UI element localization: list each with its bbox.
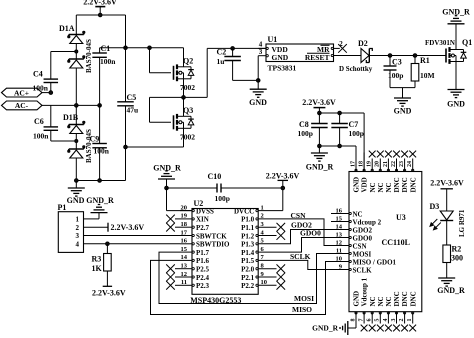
svg-text:DNC: DNC [393,291,401,306]
svg-text:C5: C5 [127,93,137,102]
node D1B midpoint [75,140,78,143]
ground GND input [67,181,85,206]
svg-text:18: 18 [181,221,188,228]
svg-text:2.2V-3.6V: 2.2V-3.6V [266,172,300,181]
svg-text:11: 11 [181,279,187,286]
svg-text:D1A: D1A [59,24,75,33]
capacitor C3 [384,56,404,88]
node DVCC/C10 [281,186,285,190]
U2 pin11 P2.3 nc [166,281,180,290]
power +2.2V-3.6V R3 [92,286,126,297]
capacitor C7 [331,113,364,146]
svg-text:P2.7: P2.7 [196,224,210,232]
node +V rail/47u top [124,46,128,50]
svg-text:47u: 47u [127,106,139,115]
svg-text:RESET: RESET [305,53,330,62]
svg-text:AC+: AC+ [14,88,29,97]
svg-text:GND: GND [447,100,465,109]
U2 left pin stubs [180,204,192,286]
svg-text:P1.4: P1.4 [241,249,255,257]
svg-text:NC: NC [377,182,385,192]
wire Q3 source to C5 [126,146,184,148]
ground GND_R top-right [442,8,470,25]
diode D1B [68,105,93,180]
resistor R1 [411,56,434,88]
wire +V rail to Q2 [100,47,184,49]
wire P1 pin2 power [84,226,109,228]
svg-text:13: 13 [181,263,188,270]
capacitor C1 [92,44,116,144]
svg-text:AC-: AC- [15,101,29,110]
svg-text:GND_R: GND_R [306,163,334,172]
transistor Q1 FDV301N [425,25,472,90]
node Q2 source [182,96,186,100]
wire U1 pin4 VDD [258,41,268,50]
U2 pin3 P1.1 nc [258,223,285,232]
node D1B/gnd [75,179,79,183]
svg-text:2: 2 [76,224,80,232]
svg-text:100n: 100n [33,132,49,141]
svg-text:GND: GND [272,53,289,62]
wire +V vertical rail [125,15,127,102]
diode D1A [68,15,93,105]
svg-text:C10: C10 [208,172,222,181]
svg-text:NC: NC [369,296,377,306]
capacitor C9 [90,135,110,181]
svg-text:Q3: Q3 [183,106,193,115]
svg-text:C2: C2 [217,48,227,57]
wire D2 cathode to Q1 gate [369,55,446,57]
svg-text:Vdcoup 1: Vdcoup 1 [361,277,369,306]
capacitor C4 [33,52,59,93]
svg-text:P1.2: P1.2 [241,232,255,240]
wire MOSI [159,252,349,303]
svg-text:SCLK: SCLK [290,252,311,261]
svg-text:SBWTDIO: SBWTDIO [196,241,230,249]
svg-text:FDV301N: FDV301N [425,39,455,47]
svg-text:C7: C7 [349,120,359,129]
node C5 bottom/Q3 source [124,145,128,149]
connector AC- [2,101,100,110]
diode D1A label [59,24,75,33]
wire MISO [151,260,350,314]
svg-text:300: 300 [451,254,463,263]
wire rail to U1 VDD [207,48,266,97]
wire U1 pin2 MR nc [331,40,347,53]
svg-text:R1: R1 [420,56,430,65]
wire C8/C7 bottom rail [319,146,356,172]
power +2.2V-3.6V DVCC [266,172,300,211]
IC U2 MSP430G2553 box [190,199,258,305]
svg-text:1: 1 [76,216,80,224]
svg-text:GDO0: GDO0 [300,228,321,237]
wire P1 pin3 SBWTCK [84,235,181,237]
svg-text:GDO2: GDO2 [353,226,373,234]
svg-text:C6: C6 [34,117,44,126]
ground GND_R R2 [437,278,465,295]
svg-text:MOSI: MOSI [294,294,314,303]
U2 right pin numbers [261,204,268,286]
svg-text:P2.4: P2.4 [196,274,210,282]
power +2.2V-3.6V P1 pin2 [108,223,144,232]
svg-text:P1.6: P1.6 [196,257,210,265]
svg-text:Q1: Q1 [462,38,472,47]
svg-text:3: 3 [259,48,263,56]
ground GND Q1 source [447,90,465,109]
svg-text:20: 20 [181,204,188,211]
wire GDO2 [258,220,349,244]
svg-text:2.2V-3.6V: 2.2V-3.6V [430,179,464,188]
svg-text:DNC: DNC [393,177,401,192]
IC U3 CC110L box [349,172,422,312]
svg-text:MISO / GDO1: MISO / GDO1 [353,258,397,266]
svg-text:GND: GND [353,291,361,307]
ground GND_R U3 pin8 [312,321,356,335]
U2 pin8 P2.0 nc [258,264,285,273]
svg-text:C9: C9 [90,135,100,144]
svg-text:D2: D2 [358,39,368,48]
svg-text:MOSI: MOSI [353,250,372,258]
svg-text:100p: 100p [298,129,313,138]
node AC-/C1C9 rail [98,104,102,108]
wire RESET [331,54,361,56]
svg-text:Vdcoup 2: Vdcoup 2 [353,218,382,226]
svg-text:7002: 7002 [180,83,195,92]
svg-text:TPS3831: TPS3831 [268,64,297,73]
svg-text:Q2: Q2 [183,57,193,66]
wire input ground line [76,180,125,182]
capacitor C8 [298,113,328,146]
node R1 top [413,54,417,58]
svg-text:P1.7: P1.7 [196,249,210,257]
svg-text:LG R971: LG R971 [458,209,466,237]
U2 pin19 XIN nc [166,215,180,224]
wire D1A midpoint tap [51,50,78,53]
svg-text:VDD: VDD [361,177,369,192]
wire DVCC pin1 [258,210,283,212]
LED D3 [430,202,467,245]
svg-text:GND: GND [394,107,412,116]
connector P1 [58,203,84,252]
svg-text:GND_R: GND_R [312,324,338,333]
wire C8/C7 top rail [319,113,364,172]
svg-text:DVCC: DVCC [234,207,254,215]
connector AC+ [2,88,51,97]
wire U1 pin3 GND [258,48,268,89]
svg-text:3: 3 [76,232,80,240]
svg-text:100p: 100p [388,71,403,80]
svg-text:NC: NC [377,296,385,306]
svg-text:2.2V-3.6V: 2.2V-3.6V [92,289,126,298]
wire top rail [76,14,125,16]
capacitor C10 [167,172,283,203]
node C3 top [388,54,392,58]
transistor Q2 [150,48,196,98]
svg-text:P2.3: P2.3 [196,282,210,290]
wire GDO0 [258,228,349,252]
svg-text:D3: D3 [430,202,440,211]
svg-text:C8: C8 [299,120,309,129]
svg-text:GDO0: GDO0 [353,234,373,242]
svg-text:17: 17 [181,229,188,236]
node C8 top [318,111,322,115]
ground GND C3/R1 [394,98,412,116]
svg-text:NC: NC [385,296,393,306]
svg-text:NC: NC [369,182,377,192]
svg-text:P1.3: P1.3 [241,241,255,249]
svg-text:BAS70-04S: BAS70-04S [85,39,93,73]
svg-text:NC: NC [353,210,363,218]
capacitor C2 [217,48,259,81]
wire Q2 source rail [150,96,208,98]
node Q2 gate feed [148,46,152,50]
wire P1 pin4 SBWTDIO [84,243,181,245]
svg-text:2.2V-3.6V: 2.2V-3.6V [302,98,336,107]
transistor Q3 [150,97,196,147]
svg-text:12: 12 [181,271,188,278]
svg-text:GND_R: GND_R [437,286,465,295]
U2 pin10 P2.2 nc [258,281,285,290]
svg-text:DVSS: DVSS [196,207,214,215]
svg-text:DNC: DNC [409,291,417,306]
svg-text:GND: GND [249,98,267,107]
svg-text:P2.0: P2.0 [241,266,255,274]
U2 pin4 P1.2 nc [258,231,285,240]
svg-text:7002: 7002 [180,133,195,142]
svg-text:D Schottky: D Schottky [339,65,373,73]
wire P1 pin1 to GND_R [84,213,100,219]
wire SCLK [258,252,349,270]
U2 pin18 P2.7 nc [166,223,180,232]
svg-text:P2.1: P2.1 [241,274,255,282]
ground GND_R above U2 [153,164,181,189]
node top rail junction [98,13,102,17]
svg-text:GND_R: GND_R [86,196,114,205]
svg-text:100n: 100n [100,57,116,66]
svg-text:P1: P1 [58,203,67,212]
U2 pin12 P2.4 nc [166,273,180,282]
node C2 top [231,47,235,51]
node AC-/D1 junction [75,104,79,108]
svg-text:CSN: CSN [353,242,367,250]
node AC+/C4 [49,91,53,95]
diode D2 [339,39,373,73]
wire DVSS feed [167,188,193,211]
svg-text:SCLK: SCLK [353,266,373,274]
svg-text:P2.5: P2.5 [196,266,210,274]
svg-text:U1: U1 [268,35,278,44]
svg-text:U3: U3 [396,213,406,222]
svg-text:P2.2: P2.2 [241,282,255,290]
node C7 bottom [338,144,342,148]
svg-text:1K: 1K [92,264,103,273]
svg-text:XIN: XIN [196,216,209,224]
power +2.2V-3.6V D3 [430,179,464,212]
diode D1B label [63,113,79,122]
ground GND_R P1 [86,196,114,213]
power +2.2V-3.6V C8/C7 [302,98,336,113]
node C9/gnd [98,179,102,183]
svg-text:P1.5: P1.5 [241,257,255,265]
svg-text:MISO: MISO [292,305,312,314]
node C8 bottom [318,144,322,148]
svg-text:CSN: CSN [291,211,307,220]
resistor R2 [443,245,463,278]
svg-text:R3: R3 [92,255,102,264]
node R3/SBWTDIO [106,242,110,246]
resistor R3 [92,244,112,286]
node GND_R/C10/DVSS [165,186,169,190]
svg-text:DNC: DNC [401,177,409,192]
svg-text:C1: C1 [101,44,111,53]
U3 top pins [350,151,417,193]
op-amp U1 TPS3831 box [266,35,334,73]
ground GND U1 [249,89,267,107]
capacitor C5 [117,93,138,181]
svg-text:CC110L: CC110L [382,238,410,247]
svg-text:SBWTCK: SBWTCK [196,232,227,240]
svg-text:R2: R2 [452,245,462,254]
U2 pin9 P2.1 nc [258,273,285,282]
node U1 gnd/C2 [256,79,260,83]
svg-text:19: 19 [181,213,188,220]
svg-text:C4: C4 [33,70,43,79]
wire CSN [258,211,349,245]
svg-text:10M: 10M [420,71,435,80]
U3 bottom pins [350,277,417,331]
svg-text:14: 14 [181,254,188,261]
svg-text:4: 4 [76,240,80,248]
svg-text:16: 16 [181,238,188,245]
svg-text:DNC: DNC [409,177,417,192]
U3 left pin stubs and numbers [331,207,349,270]
svg-text:GND: GND [67,196,85,205]
svg-text:15: 15 [181,246,188,253]
svg-text:P1.0: P1.0 [241,216,255,224]
svg-text:100p: 100p [349,129,364,138]
svg-text:C3: C3 [392,58,402,67]
svg-text:P1.1: P1.1 [241,224,255,232]
ground GND_R C8/C7 [306,146,334,172]
svg-text:2.2V-3.6V: 2.2V-3.6V [83,0,117,7]
svg-text:GND: GND [353,177,361,193]
capacitor C6 [33,105,76,141]
svg-text:NC: NC [385,182,393,192]
node C7 top [338,111,342,115]
svg-text:100p: 100p [215,194,230,203]
power +2.2V-3.6V top-left [83,0,117,15]
svg-text:DNC: DNC [401,291,409,306]
U2 pin13 P2.5 nc [166,264,180,273]
svg-text:2.2V-3.6V: 2.2V-3.6V [111,223,145,232]
svg-text:100n: 100n [94,147,110,156]
wire C3/R1 bottoms [390,88,415,98]
svg-text:1u: 1u [217,57,225,66]
